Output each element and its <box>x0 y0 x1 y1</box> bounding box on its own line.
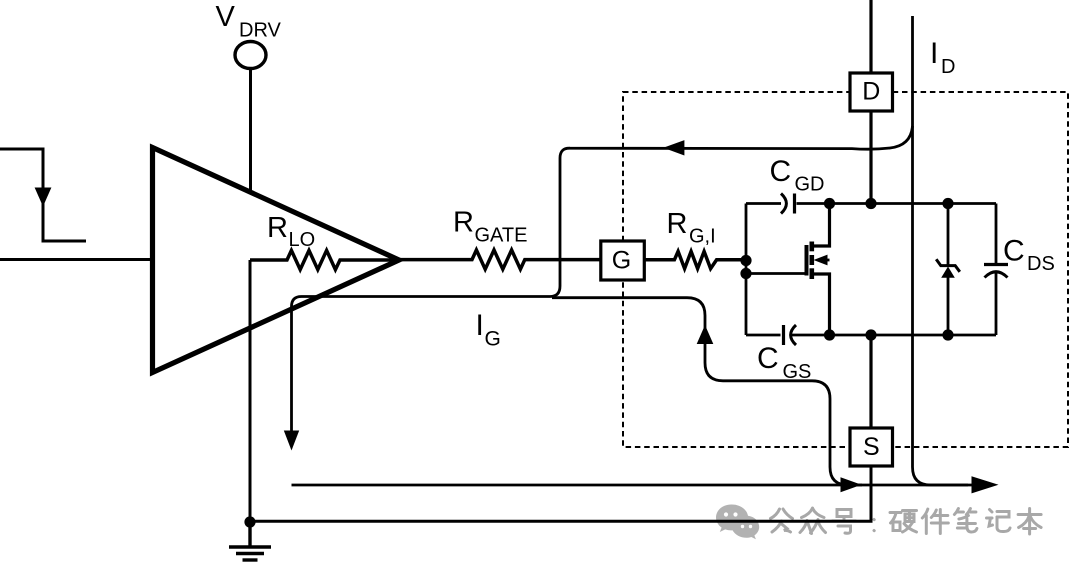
arrow head IG down at lower left <box>284 431 299 451</box>
svg-text:R: R <box>267 212 288 244</box>
svg-text:G: G <box>612 246 631 274</box>
bottom return current line with arrows <box>292 484 981 487</box>
svg-text:C: C <box>1003 235 1025 268</box>
ground symbol <box>229 522 271 560</box>
wire S stem upper <box>869 335 872 428</box>
wire cell top (drain rail) <box>746 202 781 205</box>
arrow head IG up <box>697 325 714 344</box>
svg-text:G: G <box>485 328 501 351</box>
svg-text:DRV: DRV <box>239 20 282 42</box>
drain lead <box>812 204 830 247</box>
resistor RLO <box>250 250 399 269</box>
current path IG upper loop (from ID line, left arrow, down, left, down arrow) <box>292 126 913 431</box>
supply VDRV terminal circle <box>235 42 266 69</box>
body connection <box>820 259 830 262</box>
svg-text:I: I <box>476 309 484 342</box>
svg-text:DS: DS <box>1027 253 1055 275</box>
op-amp U1 driver triangle <box>153 148 400 373</box>
arrow head return end <box>972 476 999 493</box>
source lead <box>812 274 830 335</box>
svg-text:I: I <box>930 37 938 70</box>
wire D terminal stem <box>869 0 872 204</box>
gate wire <box>746 272 807 275</box>
capacitor CDS <box>984 204 1008 336</box>
svg-text:S: S <box>863 433 880 461</box>
svg-text:G,I: G,I <box>689 226 716 248</box>
MOSFET model dashed boundary box <box>623 92 1068 447</box>
capacitor CGS <box>782 325 785 345</box>
input step arrow head <box>35 188 52 207</box>
current path IG lower branch (up arrow, to CGS return) <box>552 298 862 485</box>
junction dots bottom rail <box>824 329 835 340</box>
svg-text:GATE: GATE <box>475 225 528 247</box>
svg-text:C: C <box>757 342 779 375</box>
arrow head IG left on top segment <box>663 140 684 155</box>
junction dot ground node <box>244 516 255 527</box>
terminal box S <box>850 428 893 466</box>
svg-text:D: D <box>941 56 955 78</box>
watermark logo (chat bubbles) <box>716 505 759 540</box>
input wire <box>0 258 152 261</box>
svg-text:LO: LO <box>289 229 316 251</box>
gate bar <box>805 245 809 276</box>
capacitor CGD <box>781 194 786 214</box>
svg-text:C: C <box>770 155 792 188</box>
channel segments <box>809 242 814 252</box>
svg-text:R: R <box>453 207 474 239</box>
body arrow of Q1 <box>814 255 828 266</box>
diode body zener D1 <box>936 204 960 336</box>
resistor RG,I <box>644 251 746 268</box>
input step waveform <box>0 149 86 241</box>
watermark text gongzhonghao yingjianbijiben <box>771 508 1042 534</box>
svg-text:R: R <box>667 208 688 240</box>
svg-text:V: V <box>216 1 236 33</box>
transistor Q1 MOSFET <box>746 204 830 336</box>
current path ID vertical line and bottom curve <box>913 16 969 485</box>
terminal box D <box>850 73 893 111</box>
wire RLO left leg to ground <box>249 260 252 522</box>
junction dot gate node lower <box>740 268 751 279</box>
junction dot gate node upper <box>740 255 751 266</box>
svg-text:D: D <box>862 78 880 106</box>
wire cell bottom (source rail) <box>746 334 781 337</box>
wire cell left vertical (gate node) <box>745 204 748 336</box>
junction dots top rail <box>824 198 835 209</box>
watermark logo eyes <box>724 512 752 528</box>
arrow head return mid <box>841 477 862 492</box>
svg-text:GD: GD <box>795 174 825 196</box>
terminal box G <box>601 241 645 280</box>
ground return wire to S <box>250 466 871 521</box>
wire VDRV stem <box>249 69 252 194</box>
resistor RGATE on driver output wire <box>399 250 601 269</box>
svg-text:GS: GS <box>783 361 812 383</box>
